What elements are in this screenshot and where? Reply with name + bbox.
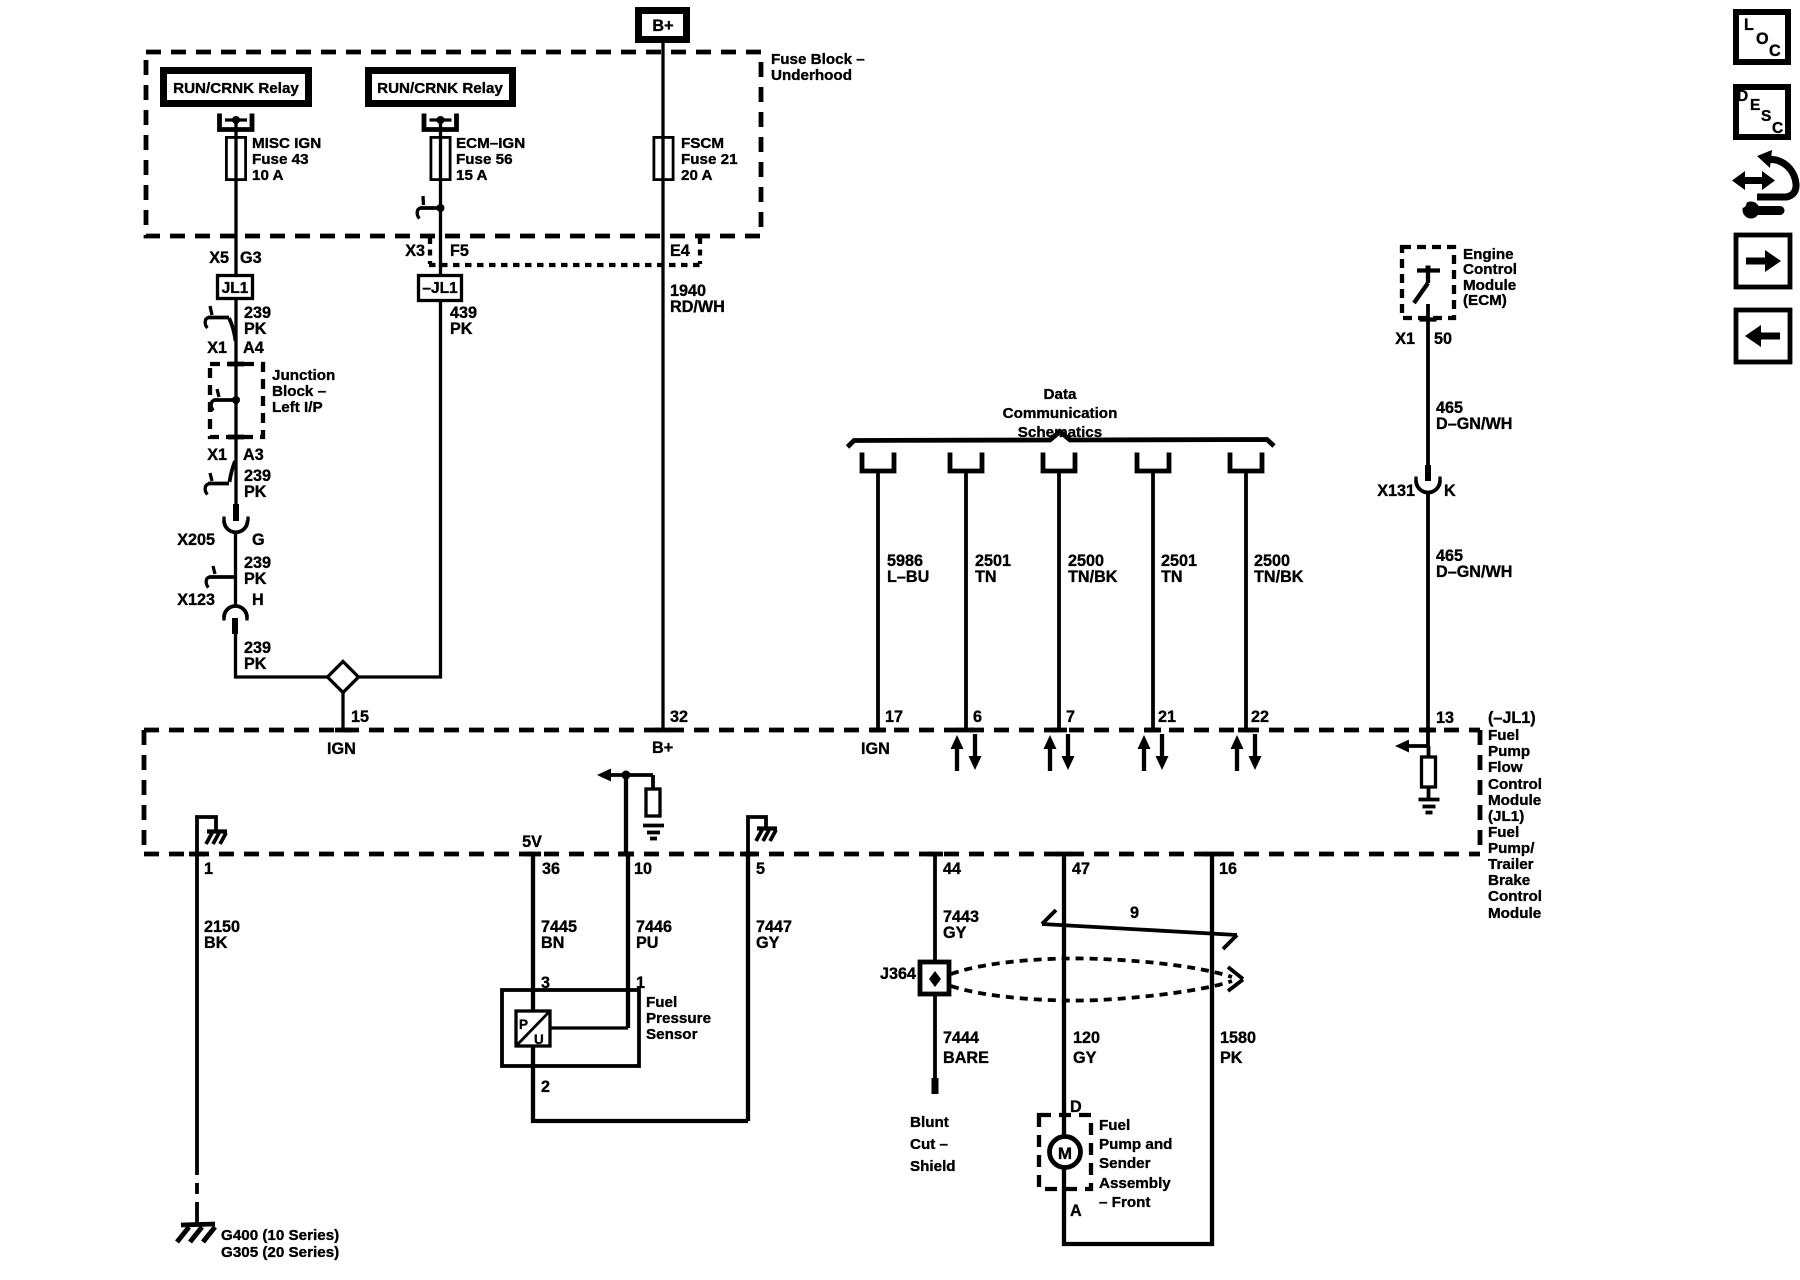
label 465 D-GN/WH (lower) xyxy=(1436,547,1512,581)
svg-text:Pump/: Pump/ xyxy=(1488,840,1535,857)
wire 7443 GY pin 44 xyxy=(933,854,937,962)
Engine Control Module (ECM) dashed box xyxy=(1402,247,1454,318)
svg-text:Brake: Brake xyxy=(1488,872,1530,889)
module internal arrow at pin 13 xyxy=(1395,730,1428,753)
label Data Communication Schematics xyxy=(1003,386,1118,441)
svg-text:2: 2 xyxy=(541,1078,550,1096)
svg-text:G305 (20 Series): G305 (20 Series) xyxy=(221,1244,339,1261)
svg-text:J364: J364 xyxy=(880,965,916,983)
label Fuse Block Underhood xyxy=(771,51,865,84)
label 120 GY xyxy=(1073,1029,1100,1067)
svg-text:17: 17 xyxy=(885,708,903,726)
wire ECM pin 50 down xyxy=(1420,304,1437,467)
svg-text:BK: BK xyxy=(204,934,228,952)
svg-text:10 A: 10 A xyxy=(252,167,284,184)
svg-text:Cut –: Cut – xyxy=(910,1136,948,1153)
svg-text:RUN/CRNK Relay: RUN/CRNK Relay xyxy=(173,80,299,97)
svg-text:MISC IGN: MISC IGN xyxy=(252,135,321,152)
svg-text:Block –: Block – xyxy=(272,383,326,400)
svg-text:32: 32 xyxy=(670,708,688,726)
label ECM-IGN Fuse 56 15 A xyxy=(456,135,525,184)
svg-text:X131: X131 xyxy=(1377,482,1415,500)
label 7446 PU xyxy=(636,918,672,952)
blunt cut stub xyxy=(932,1078,939,1094)
label MISC IGN Fuse 43 10 A xyxy=(252,135,321,184)
label 239 PK (JL1 out) xyxy=(244,304,271,338)
svg-text:7444: 7444 xyxy=(943,1029,979,1047)
svg-text:9: 9 xyxy=(1130,904,1139,922)
label 7445 BN xyxy=(541,918,577,952)
svg-text:PK: PK xyxy=(244,655,267,673)
label Fuel Pump and Sender Assembly - Front xyxy=(1099,1117,1172,1211)
svg-text:C: C xyxy=(1769,42,1781,60)
ECM internal contact switch xyxy=(1414,266,1440,304)
label Blunt Cut Shield xyxy=(910,1114,956,1175)
svg-text:36: 36 xyxy=(542,860,560,878)
svg-text:D–GN/WH: D–GN/WH xyxy=(1436,563,1512,581)
back arrow nav box xyxy=(1736,310,1790,362)
data terminal bracket pin 7 xyxy=(1043,453,1075,472)
svg-text:Fuse 43: Fuse 43 xyxy=(252,151,309,168)
svg-text:A: A xyxy=(1070,1202,1082,1220)
label X1 A3 xyxy=(207,446,264,464)
label Fuel Pressure Sensor xyxy=(646,994,711,1043)
fuse F56 ECM-IGN xyxy=(431,137,450,181)
svg-text:7: 7 xyxy=(1066,708,1075,726)
svg-text:X1: X1 xyxy=(1395,330,1415,348)
svg-text:1: 1 xyxy=(204,860,213,878)
wire 2150 BK pin 1 xyxy=(195,854,199,1164)
svg-text:E4: E4 xyxy=(670,242,690,260)
label FSCM Fuse 21 20 A xyxy=(681,135,738,184)
svg-text:S: S xyxy=(1761,108,1771,125)
pin number labels data wires xyxy=(885,708,1269,726)
sensor internal P/U transducer xyxy=(516,990,550,1047)
label 239 PK (X123 out) xyxy=(244,639,271,673)
svg-text:Fuse 21: Fuse 21 xyxy=(681,151,738,168)
svg-text:Control: Control xyxy=(1488,776,1542,793)
svg-text:F5: F5 xyxy=(450,242,469,260)
svg-text:L–BU: L–BU xyxy=(887,568,929,586)
label 239 PK (A3 out) xyxy=(244,467,271,501)
ground G400 xyxy=(177,1224,215,1242)
label X5 G3 xyxy=(209,249,261,267)
signal ground under pin-13 resistor xyxy=(1419,800,1440,813)
svg-text:Control: Control xyxy=(1463,261,1517,278)
svg-text:Flow: Flow xyxy=(1488,759,1523,776)
svg-text:A3: A3 xyxy=(243,446,264,464)
svg-text:Sensor: Sensor xyxy=(646,1026,698,1043)
svg-text:Underhood: Underhood xyxy=(771,67,852,84)
svg-text:FSCM: FSCM xyxy=(681,135,724,152)
svg-text:JL1: JL1 xyxy=(222,280,249,297)
wire 7444 BARE shield drain xyxy=(933,994,937,1078)
svg-text:B+: B+ xyxy=(652,739,673,757)
fuse F21 FSCM xyxy=(654,137,673,181)
svg-text:120: 120 xyxy=(1073,1029,1100,1047)
connector hook below X1 A3 xyxy=(205,461,235,495)
wire B+ down to FSCM fuse xyxy=(661,43,664,137)
fuel pump motor M xyxy=(1050,1137,1081,1168)
svg-text:GY: GY xyxy=(756,934,780,952)
data terminal bracket pin 22 xyxy=(1230,453,1262,472)
junction -JL1 box xyxy=(419,276,462,301)
svg-text:PK: PK xyxy=(1220,1049,1243,1067)
splice diamond xyxy=(328,662,359,693)
wire splice down to pin 15 xyxy=(341,692,344,730)
svg-text:5V: 5V xyxy=(522,833,542,851)
svg-text:1580: 1580 xyxy=(1220,1029,1256,1047)
svg-text:47: 47 xyxy=(1072,860,1090,878)
svg-text:U: U xyxy=(534,1032,544,1047)
svg-text:Control: Control xyxy=(1488,888,1542,905)
svg-text:D–GN/WH: D–GN/WH xyxy=(1436,415,1512,433)
bidirectional arrows pin 21 xyxy=(1138,734,1169,771)
svg-text:Blunt: Blunt xyxy=(910,1114,949,1131)
svg-text:L: L xyxy=(1744,16,1754,34)
label 2500 TN/BK (pin 7) xyxy=(1068,552,1118,586)
label G400 G305 xyxy=(221,1227,339,1261)
data terminal bracket pin 6 xyxy=(950,453,982,472)
shield ellipse around pump wires xyxy=(951,958,1243,1000)
svg-text:G3: G3 xyxy=(240,249,262,267)
wire 5986 L-BU xyxy=(876,470,880,730)
brace over data wires xyxy=(848,432,1275,448)
wire 7446 PU pin 10 xyxy=(626,854,630,1028)
label 7444 BARE xyxy=(943,1029,989,1067)
label Junction Block - Left I/P xyxy=(272,367,335,416)
fuse F43 MISC IGN xyxy=(226,137,245,181)
svg-text:PK: PK xyxy=(450,320,473,338)
label 2150 BK xyxy=(204,918,240,952)
wire 2501 TN (pin 21) xyxy=(1151,470,1155,730)
in-line connector X131 xyxy=(1416,465,1440,493)
module internal B+ feed arrow and pull-up xyxy=(597,769,660,855)
svg-text:Module: Module xyxy=(1488,792,1541,809)
svg-text:H: H xyxy=(252,591,264,609)
label 5986 L-BU xyxy=(887,552,929,586)
svg-text:22: 22 xyxy=(1251,708,1269,726)
wire 7445 BN pin 36 xyxy=(531,854,535,990)
wire pump return to 1580 PK xyxy=(1064,854,1212,1244)
label X1 50 xyxy=(1395,330,1452,348)
svg-text:15: 15 xyxy=(351,708,369,726)
wire relay1 to fuse 43 xyxy=(234,120,237,137)
label 2500 TN/BK (pin 22) xyxy=(1254,552,1304,586)
label 1940 RD/WH xyxy=(670,282,725,316)
svg-text:PK: PK xyxy=(244,483,267,501)
svg-text:(JL1): (JL1) xyxy=(1488,808,1524,825)
Fuel Pressure Sensor box xyxy=(502,990,639,1066)
DESC nav icon box xyxy=(1736,87,1788,137)
wire 2500 TN/BK (pin 22) xyxy=(1244,470,1248,730)
connector X3 face dotted boundary xyxy=(429,238,700,265)
wire 120 GY pin 47 xyxy=(1062,854,1066,1137)
svg-text:Pump and: Pump and xyxy=(1099,1136,1172,1153)
svg-text:G400 (10 Series): G400 (10 Series) xyxy=(221,1227,339,1244)
twisted-leads callout 9 xyxy=(1042,904,1237,949)
relay 2 output terminal bracket xyxy=(424,114,457,130)
signal ground under internal pull-up xyxy=(643,826,664,839)
svg-text:Left I/P: Left I/P xyxy=(272,399,323,416)
svg-text:Fuel: Fuel xyxy=(1488,727,1519,744)
svg-text:– Front: – Front xyxy=(1099,1194,1150,1211)
svg-text:TN: TN xyxy=(975,568,997,586)
svg-text:Communication: Communication xyxy=(1003,405,1118,422)
data terminal bracket pin 17 xyxy=(862,453,894,472)
wire X131 down to pin 13 xyxy=(1426,492,1430,730)
Junction Block - Left I/P dashed box xyxy=(210,364,263,437)
wire splice to ECM-IGN branch xyxy=(359,302,441,677)
relay K? RUN/CRNK Relay (right) xyxy=(369,71,513,104)
svg-text:(ECM): (ECM) xyxy=(1463,292,1507,309)
wire FSCM fuse down to pin 32 xyxy=(661,181,664,730)
svg-text:X5: X5 xyxy=(209,249,229,267)
splice J364 box xyxy=(920,962,949,994)
bidirectional arrows pin 22 xyxy=(1231,734,1262,771)
svg-text:Sender: Sender xyxy=(1099,1155,1151,1172)
label 2501 TN (pin 6) xyxy=(975,552,1011,586)
svg-text:13: 13 xyxy=(1436,709,1454,727)
svg-text:E: E xyxy=(1750,97,1760,114)
wire JL1 down to junction block xyxy=(234,300,237,364)
pin number labels module bottom xyxy=(204,860,1237,878)
svg-text:21: 21 xyxy=(1158,708,1176,726)
svg-text:IGN: IGN xyxy=(861,740,890,758)
svg-text:Assembly: Assembly xyxy=(1099,1175,1171,1192)
Fuse Block - Underhood dashed box xyxy=(146,52,761,236)
svg-text:X1: X1 xyxy=(207,446,227,464)
svg-text:6: 6 xyxy=(973,708,982,726)
hotlink jump icon xyxy=(1732,150,1796,219)
wire through junction block xyxy=(234,364,237,437)
label X3 F5 xyxy=(405,242,469,260)
pin tick marks on module top edge xyxy=(335,728,1436,733)
svg-text:Fuse 56: Fuse 56 xyxy=(456,151,513,168)
label X205 G xyxy=(177,531,264,549)
svg-text:PK: PK xyxy=(244,320,267,338)
connector hook on ECM-IGN feed xyxy=(417,196,444,219)
svg-text:Fuse Block –: Fuse Block – xyxy=(771,51,865,68)
module internal resistor at pin 13 xyxy=(1422,746,1436,798)
svg-text:–JL1: –JL1 xyxy=(422,280,458,297)
svg-text:5: 5 xyxy=(756,860,765,878)
svg-text:15 A: 15 A xyxy=(456,167,488,184)
label 2501 TN (pin 21) xyxy=(1161,552,1197,586)
svg-text:Pump: Pump xyxy=(1488,743,1530,760)
svg-text:D: D xyxy=(1737,88,1748,105)
in-line connector X123 xyxy=(224,606,247,634)
svg-text:O: O xyxy=(1756,30,1769,48)
svg-text:X3: X3 xyxy=(405,242,425,260)
label X123 H xyxy=(177,591,264,609)
svg-text:50: 50 xyxy=(1434,330,1452,348)
svg-text:GY: GY xyxy=(1073,1049,1097,1067)
svg-text:X123: X123 xyxy=(177,591,215,609)
label 1580 PK xyxy=(1220,1029,1256,1067)
svg-text:PK: PK xyxy=(244,570,267,588)
bidirectional arrows pin 7 xyxy=(1044,734,1075,771)
svg-text:K: K xyxy=(1444,482,1456,500)
data terminal bracket pin 21 xyxy=(1137,453,1169,472)
bidirectional arrows pin 6 xyxy=(951,734,982,771)
wire 2500 TN/BK (pin 7) xyxy=(1057,470,1061,730)
sensor internal wire pin1 to transducer xyxy=(550,1026,628,1029)
svg-text:X205: X205 xyxy=(177,531,215,549)
pin tick marks on module bottom edge xyxy=(189,852,1220,857)
label 7447 GY xyxy=(756,918,792,952)
svg-text:10: 10 xyxy=(634,860,652,878)
wire 2501 TN (pin 6) xyxy=(964,470,968,730)
svg-text:TN: TN xyxy=(1161,568,1183,586)
module internal chassis ground at pin 5 xyxy=(748,817,777,854)
connector hook below JL1 xyxy=(205,306,235,341)
svg-text:Pressure: Pressure xyxy=(646,1010,711,1027)
junction JL1 box xyxy=(218,276,253,299)
svg-text:A4: A4 xyxy=(243,339,264,357)
svg-text:BARE: BARE xyxy=(943,1049,989,1067)
label 239 PK (X205 out) xyxy=(244,554,271,588)
svg-text:20 A: 20 A xyxy=(681,167,713,184)
wire X205 to X123 xyxy=(234,532,237,607)
svg-text:Data: Data xyxy=(1044,386,1077,403)
module internal chassis ground at pin 1 xyxy=(197,817,227,854)
in-line connector X205 xyxy=(224,504,248,532)
svg-text:TN/BK: TN/BK xyxy=(1254,568,1304,586)
wire junction block to X205 xyxy=(234,437,237,505)
svg-text:16: 16 xyxy=(1219,860,1237,878)
svg-text:PU: PU xyxy=(636,934,659,952)
svg-text:Trailer: Trailer xyxy=(1488,856,1534,873)
label 7443 GY xyxy=(943,908,979,942)
svg-text:B+: B+ xyxy=(652,17,673,35)
label X1 A4 xyxy=(207,339,264,357)
svg-text:C: C xyxy=(1772,120,1783,137)
svg-text:ECM–IGN: ECM–IGN xyxy=(456,135,525,152)
svg-text:IGN: IGN xyxy=(327,740,356,758)
forward arrow nav box xyxy=(1736,235,1790,287)
FPFCM module dashed box xyxy=(144,730,1480,854)
svg-text:G: G xyxy=(252,531,265,549)
label 465 D-GN/WH (upper) xyxy=(1436,399,1512,433)
svg-text:GY: GY xyxy=(943,924,967,942)
wire relay2 to fuse 56 xyxy=(439,120,442,137)
svg-text:Fuel: Fuel xyxy=(1099,1117,1130,1134)
Fuel Pump and Sender Assembly dashed box xyxy=(1039,1115,1091,1189)
svg-text:Fuel: Fuel xyxy=(1488,824,1519,841)
connector hook on X205-X123 wire xyxy=(206,566,236,588)
wire fuse 56 down xyxy=(439,181,442,274)
svg-text:Junction: Junction xyxy=(272,367,335,384)
svg-text:M: M xyxy=(1058,1144,1072,1163)
module label Fuel Pump Flow Control Module / Fuel Pump Trailer Brake Control Module xyxy=(1488,727,1542,922)
dashed wire to G400 xyxy=(195,1164,199,1212)
wire fuse 43 to JL1 xyxy=(234,181,237,274)
svg-text:Shield: Shield xyxy=(910,1158,956,1175)
svg-text:(–JL1): (–JL1) xyxy=(1488,709,1536,727)
svg-text:Fuel: Fuel xyxy=(646,994,677,1011)
relay K? RUN/CRNK Relay (left) xyxy=(164,71,309,104)
wire sensor pin 2 return xyxy=(533,1046,748,1121)
label 439 PK xyxy=(450,304,477,338)
label Engine Control Module (ECM) xyxy=(1463,246,1517,309)
svg-text:TN/BK: TN/BK xyxy=(1068,568,1118,586)
svg-text:RUN/CRNK Relay: RUN/CRNK Relay xyxy=(377,80,503,97)
wire X123 down and right to splice xyxy=(236,633,330,677)
label X131 K xyxy=(1377,482,1456,500)
svg-text:BN: BN xyxy=(541,934,564,952)
svg-text:RD/WH: RD/WH xyxy=(670,298,725,316)
wire 7447 GY pin 5 xyxy=(746,854,750,1121)
connector hook inside junction block xyxy=(211,389,240,411)
svg-text:Module: Module xyxy=(1488,905,1541,922)
svg-text:44: 44 xyxy=(943,860,961,878)
svg-text:X1: X1 xyxy=(207,339,227,357)
relay 1 output terminal bracket xyxy=(220,114,253,130)
LOC nav icon box xyxy=(1736,12,1788,62)
B+ terminal xyxy=(639,11,687,40)
svg-text:P: P xyxy=(519,1017,528,1032)
